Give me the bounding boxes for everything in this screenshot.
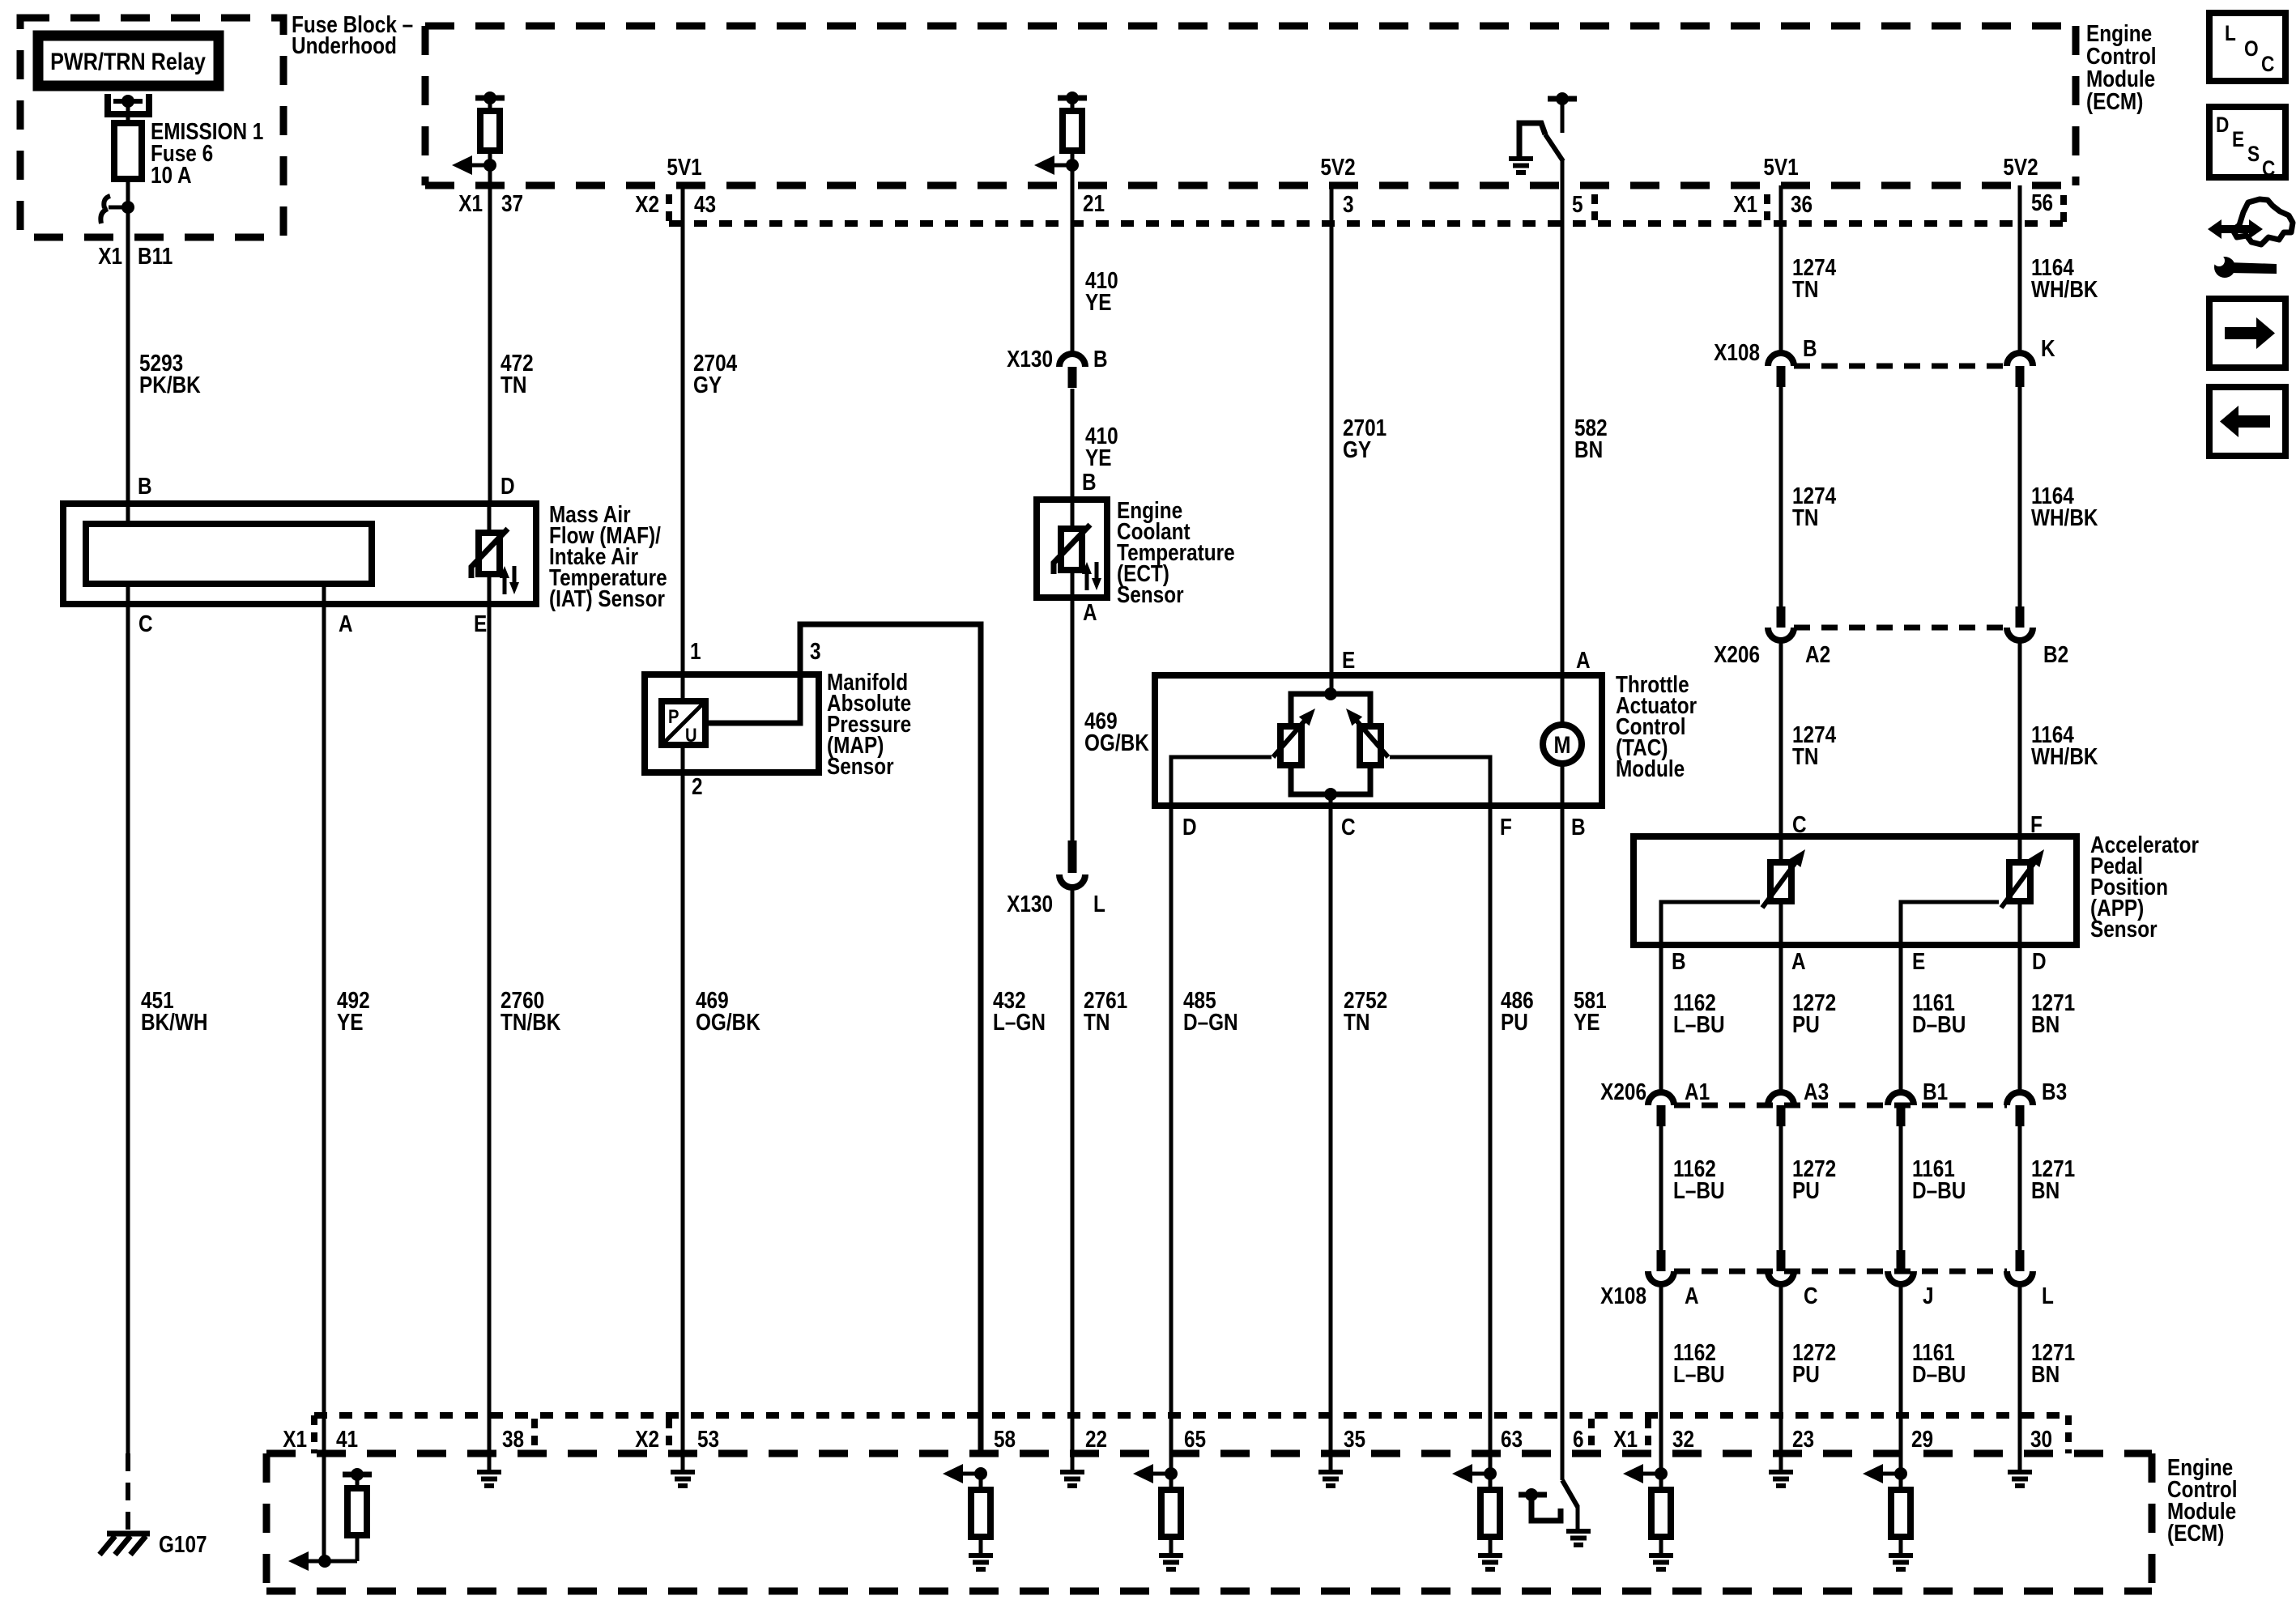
TAC wire pot to pin F: [1390, 757, 1490, 806]
svg-text:L: L: [2225, 21, 2236, 45]
ECT thermistor: [1061, 529, 1082, 570]
svg-text:F: F: [1500, 814, 1512, 840]
svg-text:B: B: [1672, 948, 1686, 974]
APP left pedal position pot: [1770, 862, 1791, 901]
wire 1164 WH/BK X206B2 to APP F: [2018, 640, 2022, 836]
connector X206 pin B1: [1888, 1092, 1914, 1105]
TAC H-bridge square: [1291, 694, 1370, 794]
svg-text:PK/BK: PK/BK: [139, 372, 201, 398]
TAC left throttle position sensor pot: [1280, 726, 1301, 765]
svg-text:E: E: [474, 611, 487, 636]
wire APP C to pot: [1779, 836, 1783, 864]
wire 469 OG/BK MAP pin2 down to pin 53: [681, 745, 685, 1472]
svg-text:YE: YE: [1085, 445, 1111, 470]
wire 5293 PK/BK: [126, 237, 130, 504]
svg-text:Sensor: Sensor: [2090, 916, 2158, 942]
svg-text:BN: BN: [2031, 1177, 2060, 1203]
svg-text:TN: TN: [501, 372, 526, 398]
svg-text:BN: BN: [1574, 436, 1603, 462]
svg-text:OG/BK: OG/BK: [696, 1009, 760, 1035]
throttle actuator control TAC module box: [1155, 675, 1602, 806]
icon LOC box: [2209, 13, 2285, 81]
svg-text:B: B: [1082, 469, 1097, 495]
MAP pin 3 wire elbow: [705, 624, 981, 1453]
APP wire pin B to left pot wiper: [1661, 902, 1760, 945]
svg-text:BN: BN: [2031, 1361, 2060, 1387]
IAT thermistor: [479, 533, 500, 574]
svg-text:X108: X108: [1600, 1283, 1646, 1308]
connector X206 dashed line bottom: [1674, 1103, 2007, 1108]
connector X206 dashed line top: [1794, 625, 2007, 631]
svg-text:YE: YE: [1085, 289, 1111, 315]
wire APP F to pot: [2018, 836, 2022, 864]
svg-text:5V1: 5V1: [1763, 154, 1798, 180]
svg-text:TN: TN: [1792, 743, 1818, 769]
wire B into element: [126, 504, 130, 524]
wire pin 37 down: [488, 165, 492, 504]
relay K: PWR/TRN Relay label box: [38, 36, 219, 86]
svg-text:A1: A1: [1685, 1079, 1710, 1104]
svg-text:A: A: [1791, 948, 1806, 974]
wire relay contact to fuse: [126, 101, 130, 123]
wire 451 BK/WH C down: [126, 604, 130, 1453]
svg-text:L–GN: L–GN: [993, 1009, 1046, 1035]
engine control module bottom dashed box: [266, 1450, 2152, 1457]
ECM internal pullup resistor at pin 37: [475, 96, 505, 101]
svg-text:3: 3: [1343, 191, 1354, 217]
svg-text:J: J: [1923, 1283, 1934, 1308]
wire A to motor: [1561, 675, 1565, 725]
svg-text:A: A: [1685, 1283, 1699, 1308]
ECM internal ground at pin 35: [1318, 1470, 1343, 1474]
svg-text:5V2: 5V2: [1320, 154, 1355, 180]
wire 1161 D-BU X206B1 to X108J: [1899, 1126, 1903, 1252]
wire 485 D-GN TAC D to pin 65: [1169, 806, 1174, 1474]
svg-text:E: E: [2232, 127, 2244, 151]
connector X206 pin A1: [1648, 1092, 1674, 1105]
ECM internal pullup resistor at pin 21: [1058, 96, 1087, 101]
wire fuse to coil node: [126, 179, 130, 237]
wire C from element: [126, 584, 130, 604]
svg-text:WH/BK: WH/BK: [2031, 276, 2098, 302]
svg-text:10 A: 10 A: [151, 162, 192, 188]
svg-text:(IAT) Sensor: (IAT) Sensor: [549, 585, 665, 611]
wire bridge to C: [1329, 794, 1333, 806]
connector X108 pin C: [1777, 1250, 1786, 1271]
svg-text:D–GN: D–GN: [1183, 1009, 1238, 1035]
svg-text:D: D: [501, 473, 515, 499]
fuse F6 EMISSION 1 10 A: [114, 123, 142, 179]
svg-text:WH/BK: WH/BK: [2031, 504, 2098, 530]
svg-text:E: E: [1912, 948, 1925, 974]
svg-text:PU: PU: [1501, 1009, 1528, 1035]
connector X108 pin K: [2007, 353, 2033, 366]
svg-text:PU: PU: [1792, 1177, 1820, 1203]
connector X108 pin B: [1768, 353, 1794, 366]
ECT sensor box: [1037, 500, 1107, 598]
svg-text:TN: TN: [1344, 1009, 1370, 1035]
svg-text:X206: X206: [1714, 641, 1760, 667]
svg-text:5V2: 5V2: [2003, 154, 2038, 180]
svg-text:D–BU: D–BU: [1912, 1011, 1966, 1037]
svg-text:X1: X1: [98, 243, 122, 269]
svg-text:D–BU: D–BU: [1912, 1361, 1966, 1387]
svg-text:D: D: [2216, 113, 2229, 137]
APP right pedal position pot: [2009, 862, 2030, 901]
ECM internal ground at pin 30: [2008, 1470, 2032, 1474]
wire 582 BN pin 5 to TAC A: [1561, 160, 1565, 675]
svg-text:36: 36: [1791, 191, 1813, 217]
svg-text:K: K: [2041, 335, 2055, 361]
fuse block underhood dashed box: [20, 18, 283, 237]
wire 2760 TN/BK E down to pin 38: [488, 604, 492, 1472]
svg-text:32: 32: [1672, 1426, 1694, 1452]
svg-text:M: M: [1554, 731, 1571, 759]
svg-text:56: 56: [2031, 189, 2053, 215]
svg-text:L–BU: L–BU: [1673, 1177, 1725, 1203]
svg-text:BK/WH: BK/WH: [141, 1009, 207, 1035]
wire 2704 GY pin 43 to MAP: [681, 185, 685, 701]
svg-text:Underhood: Underhood: [292, 32, 397, 58]
svg-text:X2: X2: [635, 1426, 659, 1452]
svg-text:21: 21: [1083, 190, 1105, 216]
ECM internal resistor to ground at pin 29: [1894, 1467, 1907, 1480]
relay contact: [108, 94, 149, 114]
ECM internal resistor to ground at pin 58: [974, 1467, 987, 1480]
ECM internal resistor to ground at pin 63: [1484, 1467, 1497, 1480]
svg-text:L–BU: L–BU: [1673, 1361, 1725, 1387]
svg-text:TN/BK: TN/BK: [501, 1009, 561, 1035]
svg-text:41: 41: [336, 1426, 358, 1452]
connector X108 pin A: [1657, 1250, 1666, 1271]
MAP P/U transducer symbol: [662, 701, 705, 745]
svg-text:P: P: [668, 705, 679, 727]
svg-text:B: B: [1571, 814, 1586, 840]
svg-text:A3: A3: [1804, 1079, 1829, 1104]
wire 2761 TN X130L down to pin 22: [1071, 886, 1075, 1472]
wire 1274 TN X206A2 to APP C: [1779, 640, 1783, 836]
wire A from element: [322, 584, 326, 604]
svg-text:PU: PU: [1792, 1011, 1820, 1037]
svg-text:X1: X1: [283, 1426, 307, 1452]
icon back arrow box: [2209, 387, 2285, 456]
TAC wire pot to pin D: [1171, 757, 1272, 806]
svg-text:5: 5: [1572, 191, 1583, 217]
svg-text:A: A: [339, 611, 353, 636]
wire 486 PU TAC F to pin 63: [1489, 806, 1493, 1474]
ECM internal resistor to ground at pin 32: [1655, 1467, 1668, 1480]
svg-text:(ECM): (ECM): [2167, 1520, 2224, 1546]
svg-text:L: L: [1093, 891, 1105, 917]
ECM internal resistor to ground at pin 65: [1165, 1467, 1178, 1480]
svg-text:X1: X1: [458, 190, 483, 216]
svg-text:U: U: [685, 724, 697, 746]
svg-text:30: 30: [2030, 1426, 2052, 1452]
wire 410 YE lower: [1071, 389, 1075, 500]
wire 1274 TN pin 36 to X108 B: [1779, 185, 1783, 354]
svg-text:B1: B1: [1923, 1079, 1948, 1104]
svg-text:29: 29: [1911, 1426, 1933, 1452]
relay movable contact hook: [121, 201, 134, 214]
svg-text:D: D: [1182, 814, 1197, 840]
wire 1272 PU X108C to pin 23: [1779, 1284, 1783, 1472]
svg-text:63: 63: [1501, 1426, 1523, 1452]
svg-text:C: C: [138, 611, 153, 636]
svg-text:65: 65: [1184, 1426, 1206, 1452]
svg-text:43: 43: [694, 191, 716, 217]
svg-text:C: C: [2261, 52, 2274, 76]
wire 1272 PU X206A3 to X108C: [1779, 1126, 1783, 1252]
svg-text:Sensor: Sensor: [1117, 581, 1184, 607]
wire 1161 D-BU APP E to X206 B1: [1899, 945, 1903, 1093]
TAC throttle motor M: [1543, 725, 1582, 764]
MAF sensing element inner box: [86, 524, 372, 584]
wire through right pot to pin D: [2018, 901, 2022, 945]
svg-text:BN: BN: [2031, 1011, 2060, 1037]
connector X206 pin A2: [1777, 606, 1786, 628]
svg-text:C: C: [1341, 814, 1356, 840]
icon forward arrow box: [2209, 299, 2285, 368]
svg-text:OG/BK: OG/BK: [1084, 730, 1149, 755]
wire 1162 L-BU X108A to pin 32: [1659, 1284, 1663, 1474]
svg-text:X130: X130: [1007, 891, 1053, 917]
ECM internal ground at pin 22: [1060, 1470, 1084, 1474]
engine control module top dashed box: [425, 23, 2076, 30]
svg-text:1: 1: [690, 638, 701, 664]
wire B into ECT: [1071, 500, 1075, 529]
ECM internal ground at pin 38: [477, 1470, 501, 1474]
accelerator pedal position APP sensor box: [1634, 836, 2077, 945]
connector dotted sub-line top: [666, 194, 672, 223]
connector X206 pin B2: [2016, 606, 2025, 628]
svg-text:B: B: [1803, 335, 1817, 361]
connector X108 dashed line top: [1794, 364, 2007, 369]
connector dotted sub-line bottom: [311, 1415, 317, 1453]
TAC right throttle position sensor pot: [1360, 726, 1381, 765]
wire 2752 TN TAC C to pin 35: [1329, 806, 1333, 1472]
svg-text:TN: TN: [1084, 1009, 1110, 1035]
svg-text:B3: B3: [2042, 1079, 2067, 1104]
ECM internal switch at pin 5: [1548, 96, 1577, 102]
svg-text:YE: YE: [337, 1009, 363, 1035]
svg-text:S: S: [2247, 142, 2260, 166]
svg-text:D–BU: D–BU: [1912, 1177, 1966, 1203]
wire 1271 BN X108L to pin 30: [2018, 1284, 2022, 1472]
svg-text:35: 35: [1344, 1426, 1365, 1452]
svg-text:A: A: [1083, 599, 1097, 625]
svg-text:23: 23: [1792, 1426, 1814, 1452]
wire 1161 D-BU X108J to pin 29: [1899, 1284, 1903, 1474]
svg-text:B11: B11: [138, 243, 173, 269]
wire A out of ECT: [1071, 570, 1075, 598]
wire D through box: [488, 504, 492, 533]
svg-text:A2: A2: [1805, 641, 1830, 667]
svg-text:3: 3: [810, 638, 821, 664]
MAF IAT sensor box: [63, 504, 536, 604]
wire 1162 L-BU X206A1 to X108A: [1659, 1126, 1663, 1252]
svg-text:X206: X206: [1600, 1079, 1646, 1104]
svg-text:C: C: [2262, 156, 2275, 181]
connector X108 pin J: [1897, 1250, 1906, 1271]
svg-text:X130: X130: [1007, 346, 1053, 372]
svg-text:L: L: [2042, 1283, 2054, 1308]
svg-text:(ECM): (ECM): [2086, 88, 2143, 114]
APP wire pin E to right pot wiper: [1901, 902, 1999, 945]
icon DESC box: [2209, 107, 2285, 177]
svg-text:A: A: [1576, 647, 1591, 673]
svg-text:6: 6: [1573, 1426, 1584, 1452]
svg-text:Module: Module: [1616, 755, 1685, 781]
bottom pin separators: [531, 1419, 538, 1449]
wire 1164 WH/BK pin 56 to X108 K: [2018, 185, 2022, 354]
svg-text:B: B: [1093, 346, 1108, 372]
svg-text:X2: X2: [635, 191, 659, 217]
connector X130 L: [1068, 840, 1077, 873]
svg-text:C: C: [1804, 1283, 1818, 1308]
svg-text:GY: GY: [1343, 436, 1371, 462]
connector X206 pin B3: [2007, 1092, 2033, 1105]
dashed wire to G107: [126, 1453, 130, 1530]
svg-text:Sensor: Sensor: [827, 753, 894, 779]
svg-text:2: 2: [692, 773, 703, 799]
svg-text:5V1: 5V1: [667, 154, 701, 180]
wire 1271 BN X206B3 to X108L: [2018, 1126, 2022, 1252]
connector X108 pin L: [2016, 1250, 2025, 1271]
wire 2701 GY pin 3 to TAC E: [1330, 185, 1334, 675]
svg-text:X1: X1: [1733, 191, 1757, 217]
svg-text:X1: X1: [1613, 1426, 1638, 1452]
svg-text:YE: YE: [1574, 1009, 1600, 1035]
svg-text:37: 37: [501, 190, 523, 216]
wire 469 OG/BK ECT A to X130 L: [1071, 598, 1075, 840]
wire through left pot to pin A: [1779, 901, 1783, 945]
icon connector end view with wrench: [2233, 199, 2293, 245]
wire pin 21 down to X130 B: [1071, 165, 1075, 355]
svg-text:22: 22: [1085, 1426, 1107, 1452]
wire 1274 TN X108B to X206A2: [1779, 386, 1783, 606]
connector X108 dashed line bottom: [1674, 1269, 2007, 1274]
ECM internal pullup at pin 41: [343, 1472, 372, 1478]
svg-text:53: 53: [697, 1426, 719, 1452]
ECM internal switch at pin 6: [1562, 1480, 1578, 1507]
MAP sensor box: [645, 674, 819, 772]
ECM internal ground at pin 53: [671, 1470, 695, 1474]
svg-text:GY: GY: [693, 372, 722, 398]
svg-text:D: D: [2032, 948, 2047, 974]
wire E to bridge: [1330, 675, 1334, 694]
wire 1162 L-BU APP B to X206 A1: [1659, 945, 1663, 1093]
svg-text:WH/BK: WH/BK: [2031, 743, 2098, 769]
svg-text:X108: X108: [1714, 339, 1760, 365]
wire 581 YE TAC B to pin 6: [1561, 806, 1565, 1480]
svg-text:L–BU: L–BU: [1673, 1011, 1725, 1037]
svg-text:O: O: [2244, 36, 2259, 61]
icon wrench: [2214, 257, 2235, 278]
wire 1271 BN APP D to X206 B3: [2018, 945, 2022, 1093]
svg-text:PWR/TRN Relay: PWR/TRN Relay: [50, 48, 206, 75]
svg-text:TN: TN: [1792, 504, 1818, 530]
wire 1272 PU APP A to X206 A3: [1779, 945, 1783, 1093]
svg-text:PU: PU: [1792, 1361, 1820, 1387]
svg-text:58: 58: [994, 1426, 1016, 1452]
connector X206 pin A3: [1768, 1092, 1794, 1105]
svg-text:B2: B2: [2043, 641, 2068, 667]
svg-text:E: E: [1342, 647, 1355, 673]
ground G107 chassis: [107, 1531, 150, 1537]
wire motor to pin B: [1561, 764, 1565, 806]
ECM internal ground at pin 23: [1769, 1470, 1793, 1474]
wire 1164 WH/BK X108K to X206B2: [2018, 386, 2022, 606]
svg-text:B: B: [138, 473, 152, 499]
svg-text:38: 38: [502, 1426, 524, 1452]
svg-text:G107: G107: [159, 1531, 207, 1557]
svg-text:TN: TN: [1792, 276, 1818, 302]
wire 492 YE A down to pin 41: [322, 604, 326, 1561]
connector X130 B: [1059, 354, 1085, 367]
